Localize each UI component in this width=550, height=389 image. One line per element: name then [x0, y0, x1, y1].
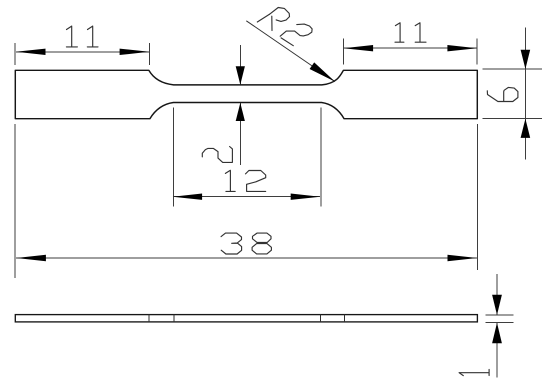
dim 1 extension line top [486, 314, 514, 316]
dim 38 text [221, 233, 271, 254]
dim 12 arrow left [173, 194, 203, 200]
dim 12 extension line right [320, 108, 322, 207]
leader R2 arrow [310, 62, 335, 81]
dim 6 arrow top [521, 50, 531, 69]
dim 2 dimension line lower [239, 103, 241, 165]
dim 11 right extension line B [476, 38, 478, 64]
dim 6 dimension line [524, 28, 526, 160]
dim 1 arrow top [492, 295, 502, 315]
dim 1 dimension line lower [496, 323, 498, 378]
dim 6 extension line top [483, 68, 542, 70]
dim 2 arrow top [236, 66, 245, 84]
dim 6 text (rotated) [487, 87, 518, 101]
dim 38 dimension line [16, 257, 477, 259]
dim 11 right arrow left [343, 45, 373, 51]
dim 1 dimension line upper [496, 274, 498, 315]
dim 11 right text [395, 23, 426, 42]
dim 12 arrow right [291, 194, 321, 200]
dim 1 arrow bottom [492, 323, 502, 343]
dim 38 extension line right [477, 124, 479, 270]
dim 11 left arrow right [120, 49, 150, 55]
dim 11 right dimension line [344, 47, 478, 49]
dim 11 left dimension line [16, 51, 149, 53]
dim 2 text (rotated) [202, 147, 232, 163]
dim 12 extension line left [172, 108, 174, 207]
side view tangent line 4 [344, 315, 346, 322]
side view tangent line 3 [319, 315, 321, 322]
dim 6 arrow bottom [521, 119, 531, 138]
dim 1 text (rotated) [459, 370, 489, 376]
dim 38 arrow left [16, 255, 46, 261]
dim 11 right arrow right [447, 45, 477, 51]
specimen outline (top view, dog-bone) [15, 70, 477, 118]
dim 11 left arrow left [16, 49, 46, 55]
leader R2 line [246, 21, 335, 82]
dim 1 extension line bottom [486, 322, 514, 324]
dim 2 arrow bottom [236, 103, 245, 121]
dim 11 left text [66, 26, 98, 47]
dim 38 extension line left [14, 124, 16, 278]
dim 2 dimension line upper [239, 45, 241, 85]
side view tangent line 1 [148, 315, 150, 322]
dim 6 extension line bottom [483, 118, 542, 120]
dim 38 arrow right [448, 255, 478, 261]
leader R2 text (rotated 2) [280, 24, 312, 46]
side view tangent line 2 [173, 315, 175, 322]
leader R2 text (rotated R) [257, 8, 289, 31]
dim 11 left extension line B [148, 43, 150, 65]
dim 11 left extension line A [14, 43, 16, 65]
dim 12 text [225, 170, 265, 191]
dim 11 right extension line A [342, 38, 344, 64]
dim 12 dimension line [173, 196, 320, 198]
side view outline (bottom thin plate) [15, 315, 477, 322]
